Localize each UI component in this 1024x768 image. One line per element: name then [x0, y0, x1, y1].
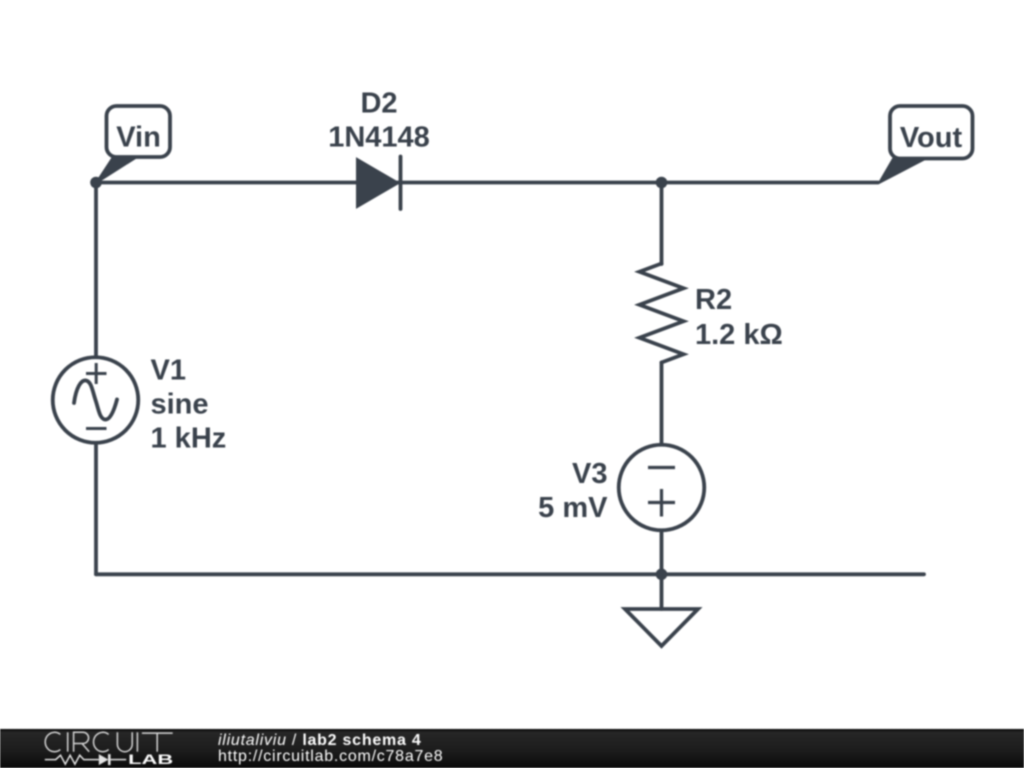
- svg-text:V1: V1: [151, 355, 186, 387]
- net flag Vin tail: [96, 157, 137, 183]
- footer bar: [0, 729, 1024, 768]
- wire: right vertical from top node to R2: [660, 183, 664, 265]
- CircuitLab logo: [42, 730, 182, 768]
- svg-text:1.2 kΩ: 1.2 kΩ: [695, 319, 783, 351]
- logo diode: [99, 754, 109, 765]
- ground stem: [660, 574, 664, 609]
- wire: top horizontal from Vin node to Vout flag: [96, 181, 878, 185]
- logo squiggle wire + resistor: [45, 755, 99, 764]
- svg-text:D2: D2: [360, 88, 397, 120]
- wire: bottom ground rail: [96, 572, 924, 576]
- svg-text:1N4148: 1N4148: [328, 122, 430, 154]
- ground triangle: [625, 609, 698, 646]
- resistor R2 zigzag: [640, 264, 684, 363]
- V1 sine wave: [74, 380, 117, 419]
- diode D2 cathode bar: [399, 157, 403, 210]
- svg-text:sine: sine: [151, 389, 209, 421]
- svg-text:V3: V3: [572, 458, 607, 490]
- V1 minus sign: [86, 427, 107, 430]
- footer title and url: [217, 0, 219, 1]
- V3 plus sign: [648, 501, 675, 504]
- svg-text:R2: R2: [695, 284, 732, 316]
- voltage source V1 circle: [53, 357, 139, 443]
- svg-text:1 kHz: 1 kHz: [151, 423, 227, 455]
- net flag Vout box: [890, 106, 973, 159]
- node B: top right junction dot: [656, 177, 668, 189]
- svg-text:Vout: Vout: [900, 122, 963, 154]
- V3 minus sign: [648, 466, 675, 469]
- svg-text:5 mV: 5 mV: [538, 492, 608, 524]
- wire: left vertical from V1 bottom to ground rail: [94, 444, 98, 574]
- node A: Vin junction dot: [90, 177, 102, 189]
- V1 plus sign: [86, 372, 107, 375]
- svg-text:LAB: LAB: [128, 751, 173, 767]
- logo word CIRCUIT: [45, 732, 172, 751]
- net flag Vout tail: [879, 158, 927, 183]
- voltage source V3 circle: [619, 445, 705, 531]
- node C: ground junction dot: [656, 569, 668, 581]
- wire: from R2 bottom to V3 top: [660, 363, 664, 447]
- svg-text:Vin: Vin: [116, 122, 161, 154]
- net flag Vin box: [107, 106, 171, 157]
- wire: left vertical from Vin node to V1 top: [94, 183, 98, 358]
- diode D2 triangle: [357, 158, 400, 208]
- wire: from V3 bottom to ground rail: [660, 530, 664, 574]
